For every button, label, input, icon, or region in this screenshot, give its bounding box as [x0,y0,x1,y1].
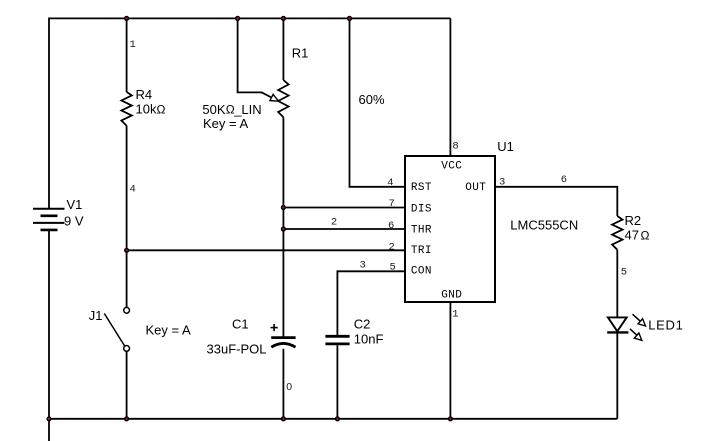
wire LED bottom [616,332,618,418]
wire TRI pin 2 [127,249,405,251]
svg-text:LED1: LED1 [648,317,683,332]
junction top R1 [281,16,286,21]
wire bottom bus [49,418,617,420]
junction bottom GND [448,416,453,421]
svg-text:Ω: Ω [641,228,650,242]
svg-text:R4: R4 [136,87,153,102]
junction bottom battery [46,416,51,421]
value label 10kOhm [136,102,166,117]
capacitor C1 [271,324,296,347]
svg-text:R2: R2 [625,213,642,228]
svg-text:4: 4 [130,184,136,196]
svg-text:3: 3 [360,260,366,272]
wire TRI junction to switch [126,250,128,307]
svg-text:10nF: 10nF [354,331,384,346]
svg-text:J1: J1 [89,308,103,323]
op-amp U1 LMC555CN body [405,156,495,302]
value label 50KOhm_LIN [202,102,261,117]
ground stub wire [48,419,50,441]
junction THR [281,226,286,231]
wire THR pin 6 [283,228,405,230]
wire GND pin 1 [449,302,451,419]
wire R4 bottom to TRI junction [126,126,128,251]
svg-text:10k: 10k [136,102,157,117]
svg-text:OUT: OUT [465,182,486,194]
resistor R2 [612,216,622,250]
potentiometer R1 [278,80,288,117]
switch J1 [104,307,129,351]
wire R1 bottom to C1 [282,117,284,336]
junction DIS [281,205,286,210]
resistor R4 [121,92,131,126]
svg-text:DIS: DIS [411,203,432,215]
wire R1 top [282,18,284,80]
svg-text:V1: V1 [67,197,83,212]
svg-text:7: 7 [389,198,395,210]
svg-text:6: 6 [561,174,567,186]
svg-text:C1: C1 [232,317,249,332]
svg-text:2: 2 [389,242,395,254]
svg-text:R1: R1 [292,45,309,60]
wire pot wiper [238,18,272,97]
svg-text:TRI: TRI [411,245,432,257]
svg-text:5: 5 [621,267,627,279]
wire top bus [49,17,450,19]
svg-text:THR: THR [411,224,432,236]
wire R2 to LED [616,250,618,318]
svg-text:6: 6 [388,220,394,232]
capacitor C2 [325,336,349,344]
wire CON pin 5 [337,271,405,335]
LED LED1 [607,317,628,332]
svg-text:Ω: Ω [157,102,166,116]
svg-text:0: 0 [286,381,292,393]
battery V1 [33,209,65,230]
junction bottom J1 [124,416,129,421]
junction bottom C2 [335,416,340,421]
svg-text:1: 1 [130,39,136,51]
wire switch to bottom bus [126,351,128,419]
svg-text:47: 47 [625,228,639,243]
svg-text:2: 2 [331,217,337,229]
wire left battery bottom [48,230,50,419]
wire RST horizontal pin 4 [349,186,405,188]
svg-text:Key = A: Key = A [203,116,248,131]
svg-text:VCC: VCC [441,161,462,173]
svg-text:8: 8 [452,140,458,152]
svg-text:5: 5 [390,262,396,274]
junction bottom C1 [281,416,286,421]
wire VCC pin 8 [449,18,451,156]
svg-text:3: 3 [499,177,505,189]
junction top wiper [235,16,240,21]
pot wiper arrowhead [270,94,279,101]
junction top RST [347,16,352,21]
svg-text:4: 4 [387,177,393,189]
junction top R4 [124,16,129,21]
wire DIS pin 7 [283,207,405,209]
wire RST vertical [349,18,351,186]
svg-text:C2: C2 [354,316,371,331]
svg-text:RST: RST [411,182,432,194]
LED light arrow 1 [633,314,646,326]
svg-text:50K: 50K [202,102,225,117]
svg-text:Key = A: Key = A [146,322,191,337]
svg-text:GND: GND [441,289,462,301]
svg-text:33uF-POL: 33uF-POL [207,342,267,357]
LED light arrow 2 [630,329,642,341]
wire C2 bottom [336,345,338,419]
svg-text:LMC555CN: LMC555CN [510,218,578,233]
svg-text:1: 1 [452,308,458,320]
wire R4 top [126,18,128,92]
svg-text:U1: U1 [497,139,514,154]
svg-text:9 V: 9 V [64,213,84,228]
wire left battery top [48,18,50,209]
wire C1 bottom [282,349,284,419]
svg-text:_LIN: _LIN [233,102,261,117]
value label 47Ohm [625,228,650,243]
svg-text:60%: 60% [359,92,385,107]
wire OUT pin 3 [495,187,617,216]
svg-text:CON: CON [411,266,432,278]
junction TRI [124,248,129,253]
